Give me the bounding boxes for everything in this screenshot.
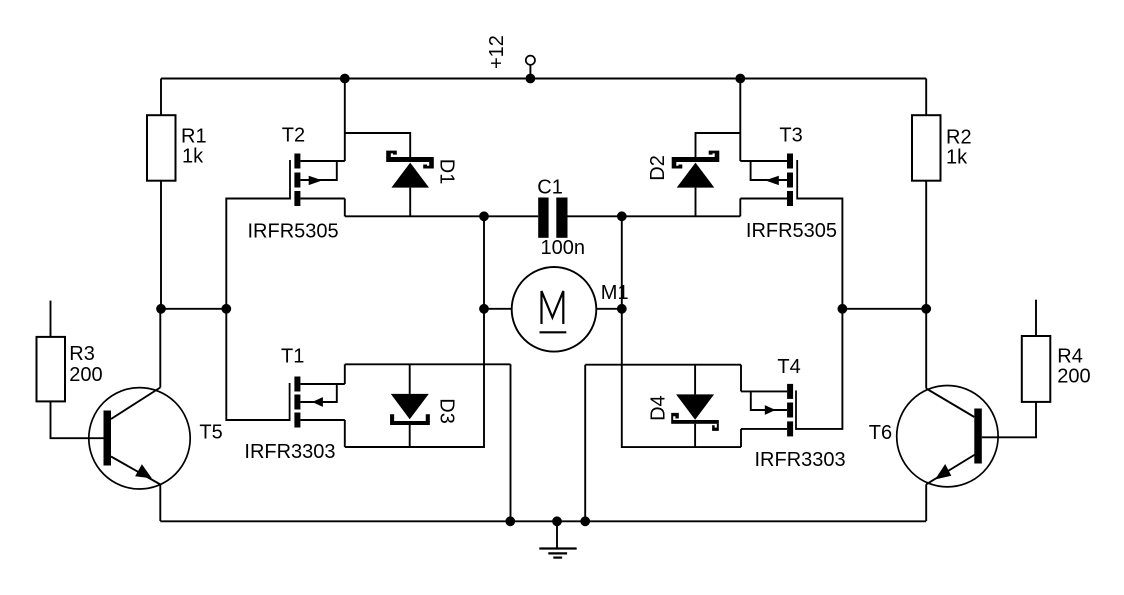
wire left box right edge to rail [510,364,512,521]
junction dot motor-left-top [479,211,489,221]
label R1 1k [181,126,207,168]
svg-text:IRFR5305: IRFR5305 [746,220,837,242]
diode D3 [391,364,429,447]
junction dot left-node-a [156,304,166,314]
svg-text:100n: 100n [541,237,586,259]
wire right box top edge [585,364,741,366]
wire T3 drain step [739,199,741,217]
junction dot motor-right-top [617,211,627,221]
wire T2 drain step [344,199,346,217]
wire T3 source riser [739,79,741,162]
wire T5 collector [159,309,161,388]
wire T4 bottom step [740,429,742,447]
svg-text:D3: D3 [436,398,458,424]
svg-text:D1: D1 [436,159,458,185]
svg-text:200: 200 [1057,365,1090,387]
svg-text:T5: T5 [199,421,222,443]
svg-text:M1: M1 [601,282,629,304]
diode D2 (schottky) [672,151,720,188]
wire motor right column [622,216,741,447]
wire right base node [842,308,926,310]
transistor T1 [290,377,345,428]
label R2 1k [946,127,972,169]
wire motor-left net [345,215,538,217]
wire motor left column [345,216,484,447]
wire D1 branch [345,133,410,158]
svg-text:D2: D2 [647,155,669,181]
svg-text:200: 200 [69,364,102,386]
transistor T3 [740,154,797,207]
junction dot rail-right [735,74,745,84]
wire left base node [161,308,226,310]
transistor T6 [897,386,998,487]
wire T1 top riser [344,364,346,384]
junction dot right-node-a [838,304,848,314]
capacitor C1 [538,198,567,238]
wire left box top edge [345,363,511,365]
diode D1 (schottky) [386,151,434,188]
wire T2 source riser [344,79,346,162]
wire T5 emitter [159,485,161,522]
wire T6 collector [925,309,927,389]
wire right box left edge to rail [584,365,586,521]
svg-text:R1: R1 [181,126,207,148]
motor M1 [484,267,622,352]
wire T2 gate net [226,199,290,309]
transistor T5 [89,388,190,489]
svg-text:T3: T3 [779,125,802,147]
wire T1 bottom step [344,420,346,447]
wire bottom rail [160,520,926,522]
wire motor-right net [568,215,741,217]
svg-text:IRFR5305: IRFR5305 [248,220,339,242]
resistor R2 [912,79,941,309]
ground [539,521,576,557]
wire T4 top riser [740,365,742,392]
junction dot rail-d4 [580,516,590,526]
svg-text:R4: R4 [1057,346,1083,368]
wire top rail +12 [161,78,926,80]
svg-text:T6: T6 [869,422,892,444]
label R3 200 [69,343,102,386]
svg-text:+12: +12 [486,35,508,69]
wire T1 gate net [226,309,289,420]
svg-text:R2: R2 [946,127,972,149]
svg-text:D4: D4 [648,395,670,421]
junction dot right-node-b [921,304,931,314]
wire D1 anode stub [409,188,411,217]
svg-text:IRFR3303: IRFR3303 [755,449,846,471]
junction dot left-node-b [221,304,231,314]
node +12 terminal [526,56,535,79]
junction dot rail-left [340,74,350,84]
svg-text:T4: T4 [777,356,800,378]
svg-text:T2: T2 [282,125,305,147]
wire T4 gate net [796,309,842,429]
svg-text:1k: 1k [946,147,968,169]
junction dot motor-left [479,304,489,314]
wire T6 emitter [925,484,927,521]
svg-text:IRFR3303: IRFR3303 [244,441,335,463]
junction dot rail-center [526,74,536,84]
wire D2 anode stub [695,188,697,217]
wire T3 gate net [797,199,842,309]
resistor R1 [147,79,176,309]
resistor R4 [982,300,1051,438]
svg-text:R3: R3 [69,343,95,365]
diode D4 [671,365,719,447]
label R4 200 [1057,346,1090,388]
transistor T4 [741,384,796,437]
transistor T2 [290,154,345,207]
junction dot motor-right [617,304,627,314]
junction dot rail-gnd [552,516,562,526]
svg-text:T1: T1 [281,346,304,368]
svg-text:1k: 1k [182,146,204,168]
svg-text:C1: C1 [537,176,563,198]
wire D2 branch [696,133,741,158]
junction dot rail-d3 [505,516,515,526]
resistor R3 [37,301,104,439]
